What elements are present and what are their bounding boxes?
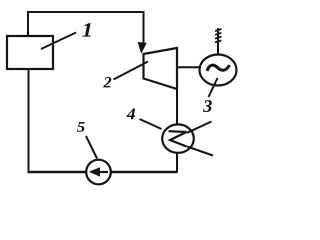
generator lead hatch 2 — [215, 33, 222, 35]
cooling water inlet pipe — [187, 122, 212, 133]
label 3 — [203, 100, 212, 112]
label 5 — [77, 122, 85, 132]
boiler B1 — [7, 36, 53, 69]
leader line 2 — [114, 62, 149, 80]
condenser C — [162, 124, 194, 152]
pump arrowhead — [89, 167, 100, 176]
generator lead hatch 3 — [215, 37, 222, 39]
generator lead hatch 1 — [215, 29, 222, 31]
wire top horizontal — [27, 11, 144, 13]
generator tilde symbol — [207, 65, 230, 71]
wire boiler top riser — [27, 12, 29, 36]
condenser coil zigzag — [169, 131, 187, 146]
wire turbine exhaust — [176, 88, 178, 125]
label 1 — [82, 23, 91, 37]
label 4 — [127, 109, 136, 120]
wire bottom return — [28, 171, 178, 173]
leader line 3 — [209, 78, 218, 97]
leader line 1 — [41, 33, 76, 50]
pump P — [86, 160, 111, 185]
pump arrow shaft — [95, 171, 108, 173]
arrowhead steam inlet — [138, 42, 147, 54]
generator lead hatch 4 — [215, 40, 222, 42]
cooling water outlet pipe — [187, 147, 213, 156]
leader line 4 — [140, 119, 162, 129]
wire condensate line — [176, 153, 178, 172]
wire steam downcomer — [143, 11, 145, 46]
wire turbine-generator shaft — [177, 66, 200, 68]
generator G — [200, 55, 237, 86]
wire boiler bottom / left return — [28, 69, 30, 172]
turbine T — [144, 48, 178, 89]
label 2 — [103, 77, 111, 87]
leader line 5 — [86, 136, 97, 159]
generator output lead — [217, 28, 219, 55]
